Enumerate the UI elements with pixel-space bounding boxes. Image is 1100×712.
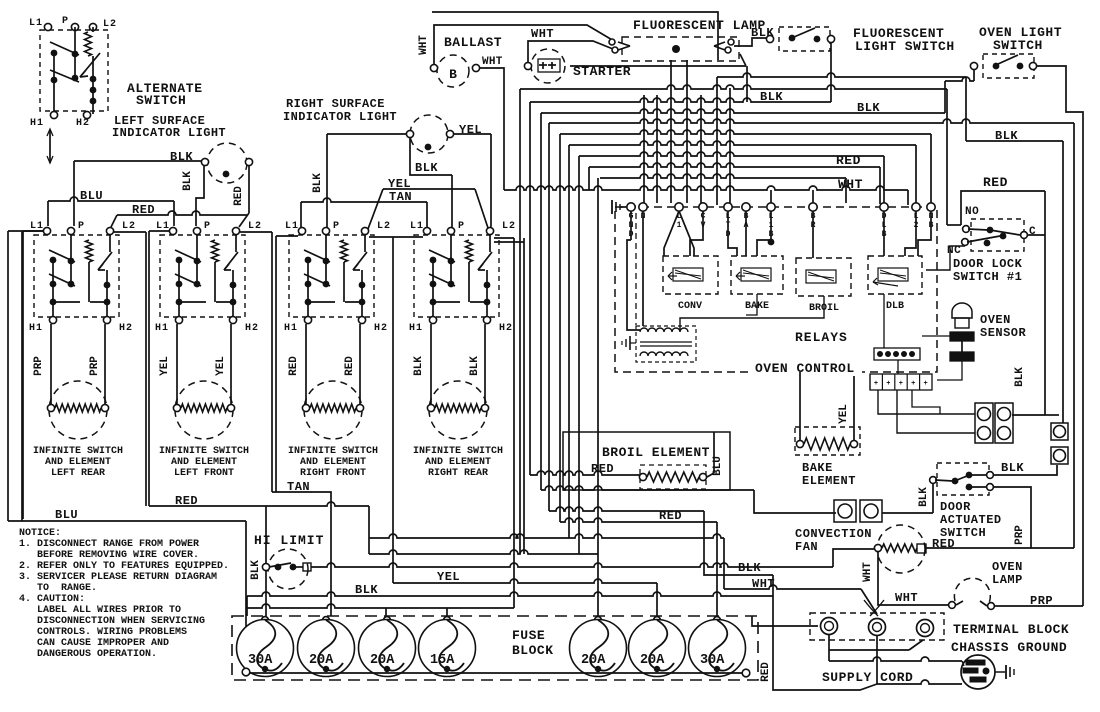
oven light switch — [970, 54, 1036, 78]
bus wire 10 WHT (y178) — [600, 174, 846, 178]
svg-text:BLK: BLK — [170, 150, 193, 164]
svg-text:BLK: BLK — [415, 161, 438, 175]
oven control dashed box — [615, 207, 937, 372]
wires oven sensor leads — [922, 335, 950, 337]
svg-text:CAN CAUSE IMPROPER AND: CAN CAUSE IMPROPER AND — [19, 638, 169, 649]
svg-text:INDICATOR LIGHT: INDICATOR LIGHT — [283, 110, 397, 124]
svg-text:BLOCK: BLOCK — [512, 643, 554, 658]
svg-text:NO: NO — [965, 206, 979, 218]
wire into terminal block — [752, 616, 818, 626]
svg-text:BLK: BLK — [857, 101, 880, 115]
svg-text:RED: RED — [760, 662, 772, 682]
svg-text:H2: H2 — [499, 323, 513, 334]
bus wire 3 BLK (y102) — [530, 98, 831, 102]
svg-text:DOOR LOCK: DOOR LOCK — [953, 257, 1023, 271]
wire from indicator down to P of left front switch — [196, 166, 204, 226]
oven control output connector — [870, 374, 932, 390]
broil element box — [563, 432, 730, 490]
svg-text:+: + — [886, 380, 890, 388]
svg-text:+: + — [899, 380, 903, 388]
svg-text:BLU: BLU — [80, 189, 103, 203]
svg-text:RED: RED — [132, 203, 155, 217]
svg-text:L2: L2 — [103, 19, 117, 30]
wires terminals to relays — [664, 211, 679, 256]
fluorescent light switch — [766, 27, 834, 51]
svg-text:WHT: WHT — [531, 27, 554, 41]
right surface indicator light — [406, 115, 453, 153]
wire RED connecting L2 terminals — [117, 211, 247, 215]
svg-text:30A: 30A — [248, 653, 273, 668]
wire hi limit to right — [311, 563, 833, 567]
svg-text:WHT: WHT — [862, 562, 874, 582]
infinite switch and element right rear — [409, 221, 516, 479]
svg-text:INFINITE SWITCH: INFINITE SWITCH — [288, 446, 378, 457]
wire fan to door switch — [882, 512, 933, 514]
svg-text:YEL: YEL — [159, 356, 171, 376]
svg-text:P: P — [78, 221, 84, 232]
bus wire 6 (y134) — [560, 130, 931, 134]
svg-text:SWITCH #1: SWITCH #1 — [953, 270, 1022, 284]
infinite switch and element left rear — [29, 221, 136, 479]
fuse 15A at x=447 — [419, 617, 476, 677]
wire to right indicator — [327, 133, 406, 135]
svg-text:L2: L2 — [248, 221, 262, 232]
wire rail right of unit 1 — [145, 232, 147, 506]
left surface indicator light — [201, 143, 252, 183]
svg-text:INFINITE SWITCH: INFINITE SWITCH — [159, 446, 249, 457]
svg-text:TERMINAL BLOCK: TERMINAL BLOCK — [953, 622, 1069, 637]
svg-text:BEFORE REMOVING WIRE COVER.: BEFORE REMOVING WIRE COVER. — [19, 550, 199, 561]
svg-text:2. REFER ONLY TO FEATURES EQUI: 2. REFER ONLY TO FEATURES EQUIPPED. — [19, 561, 229, 572]
bus wire 1 (y77) — [717, 73, 966, 77]
svg-text:OVEN: OVEN — [980, 313, 1011, 327]
svg-text:AND ELEMENT: AND ELEMENT — [300, 457, 366, 468]
svg-text:1. DISCONNECT RANGE FROM POWER: 1. DISCONNECT RANGE FROM POWER — [19, 539, 199, 550]
svg-text:RIGHT REAR: RIGHT REAR — [428, 468, 488, 479]
svg-text:FAN: FAN — [795, 540, 818, 554]
svg-text:BLK: BLK — [995, 129, 1018, 143]
svg-text:FUSE: FUSE — [512, 628, 545, 643]
svg-text:RED: RED — [344, 356, 356, 376]
wires from oven control to connector blocks — [878, 390, 975, 414]
svg-text:RELAYS: RELAYS — [795, 330, 848, 345]
svg-text:H1: H1 — [29, 323, 43, 334]
arrow below alternate switch — [49, 130, 51, 163]
wire y522 — [560, 518, 717, 522]
svg-text:CONV: CONV — [678, 301, 702, 312]
svg-text:CONVECTION: CONVECTION — [795, 527, 872, 541]
svg-text:LEFT REAR: LEFT REAR — [51, 468, 105, 479]
svg-text:BLK: BLK — [1001, 461, 1024, 475]
svg-text:L1: L1 — [410, 221, 424, 232]
supply cord wires — [828, 635, 830, 661]
svg-text:PRP: PRP — [1014, 525, 1026, 545]
svg-text:H2: H2 — [245, 323, 259, 334]
svg-text:NC: NC — [947, 245, 961, 257]
svg-text:RIGHT SURFACE: RIGHT SURFACE — [286, 97, 385, 111]
svg-text:RED: RED — [836, 153, 861, 168]
wire to door lock NO — [946, 89, 948, 225]
svg-text:AND ELEMENT: AND ELEMENT — [45, 457, 111, 468]
svg-text:L2: L2 — [377, 221, 391, 232]
svg-text:BLK: BLK — [760, 90, 783, 104]
svg-text:INFINITE SWITCH: INFINITE SWITCH — [33, 446, 123, 457]
oven control terminals — [627, 203, 635, 211]
svg-text:BLK: BLK — [413, 356, 425, 376]
svg-text:+: + — [911, 380, 915, 388]
svg-text:H2: H2 — [374, 323, 388, 334]
svg-text:4. CAUTION:: 4. CAUTION: — [19, 594, 85, 605]
svg-text:20A: 20A — [309, 653, 334, 668]
fuse block dashed box — [232, 616, 758, 680]
relay BROIL — [796, 258, 851, 296]
broil element resistor — [639, 465, 706, 489]
label OVEN CONTROL — [752, 360, 862, 375]
door lock switch #1 — [947, 206, 1036, 257]
wire TAN connecting L1 right units — [301, 198, 427, 202]
wire N to transformer — [642, 211, 644, 326]
svg-text:SWITCH: SWITCH — [136, 93, 186, 108]
svg-text:LAMP: LAMP — [992, 573, 1023, 587]
svg-text:RED: RED — [983, 175, 1008, 190]
svg-text:TAN: TAN — [389, 190, 412, 204]
svg-text:BLU: BLU — [55, 508, 78, 522]
fuse 20A at x=657 — [629, 617, 686, 677]
wire y511 — [549, 507, 704, 511]
relay BAKE — [731, 256, 783, 294]
svg-text:YEL: YEL — [838, 404, 850, 424]
terminal block — [810, 613, 944, 640]
square terminal B — [1051, 447, 1068, 464]
wire from fluorescent switch down — [830, 42, 832, 102]
ballast B — [430, 35, 502, 87]
svg-text:3. SERVICER PLEASE RETURN DIAG: 3. SERVICER PLEASE RETURN DIAGRAM — [19, 572, 217, 583]
svg-text:20A: 20A — [370, 653, 395, 668]
svg-text:BLK: BLK — [312, 173, 324, 193]
svg-text:TO RANGE.: TO RANGE. — [19, 583, 97, 594]
relay CONV — [663, 256, 718, 294]
wire from lamp assembly bottom — [570, 65, 746, 67]
svg-text:BLK: BLK — [738, 561, 761, 575]
svg-text:SUPPLY CORD: SUPPLY CORD — [822, 670, 913, 685]
svg-text:YEL: YEL — [215, 356, 227, 376]
svg-text:L1: L1 — [29, 18, 43, 29]
ground symbol at oven control — [620, 206, 631, 208]
svg-text:15A: 15A — [430, 653, 455, 668]
wire PRP from door actuated switch — [994, 487, 1074, 548]
svg-text:RED: RED — [932, 537, 955, 551]
wire bottom feed 4 — [247, 604, 514, 608]
wire hi limit down to fuse 1 — [265, 571, 267, 616]
svg-text:NOTICE:: NOTICE: — [19, 528, 61, 539]
svg-text:WHT: WHT — [418, 35, 430, 55]
wire BLK from indicator to P right rear — [410, 138, 452, 175]
supply cord curves — [864, 600, 884, 616]
wire YEL from right indicator — [454, 133, 491, 135]
svg-text:RED: RED — [233, 186, 245, 206]
wire rail right of unit 3 / left of unit 4 (YEL) — [392, 237, 394, 583]
bus wire 11 WHT wavy (y190) — [504, 186, 908, 190]
fuse 20A at x=326 — [298, 617, 355, 677]
enclosure line around lamp assembly — [432, 12, 718, 60]
infinite switch and element right front — [284, 221, 391, 479]
svg-text:20A: 20A — [640, 653, 665, 668]
bus wire 4 BLK (y113) — [541, 109, 945, 113]
wire from door lock NC to DLB — [926, 246, 965, 270]
svg-text:DOOR: DOOR — [940, 500, 971, 514]
wire rail left of unit 3 (TAN) — [275, 236, 277, 492]
svg-text:BLK: BLK — [182, 171, 194, 191]
wire BLU connecting L1 terminals — [48, 197, 174, 201]
svg-text:LEFT FRONT: LEFT FRONT — [174, 468, 234, 479]
wire BLK right top — [965, 77, 967, 141]
svg-text:YEL: YEL — [459, 123, 482, 137]
svg-text:OVEN: OVEN — [992, 560, 1023, 574]
svg-text:RIGHT FRONT: RIGHT FRONT — [300, 468, 366, 479]
svg-text:CONTROLS. WIRING PROBLEMS: CONTROLS. WIRING PROBLEMS — [19, 627, 187, 638]
svg-text:BLK: BLK — [918, 487, 930, 507]
wire staircase to fuse 5 — [597, 178, 599, 616]
fuse block bottom bus — [244, 672, 742, 674]
svg-text:BAKE: BAKE — [802, 461, 833, 475]
svg-text:L2: L2 — [502, 221, 516, 232]
fluorescent lamp — [609, 18, 766, 61]
wire rail left of unit 1 (BLU) — [22, 231, 24, 519]
svg-text:H1: H1 — [409, 323, 423, 334]
wire YEL connecting L2 right units — [383, 188, 475, 190]
wire hi limit feed — [265, 506, 267, 563]
svg-text:20A: 20A — [581, 653, 606, 668]
svg-text:BALLAST: BALLAST — [444, 35, 502, 50]
svg-text:L1: L1 — [285, 221, 299, 232]
svg-text:ACTUATED: ACTUATED — [940, 513, 1002, 527]
wire from oven light switch left — [973, 70, 975, 81]
wire from oven light switch right to rail — [1037, 66, 1083, 606]
bus wire 2 (y89) — [520, 85, 947, 89]
relay DLB — [868, 256, 922, 294]
svg-text:AND ELEMENT: AND ELEMENT — [171, 457, 237, 468]
svg-text:+: + — [874, 380, 878, 388]
fuse 30A at x=265 — [237, 617, 294, 677]
wire rail right of unit 4 — [513, 238, 515, 608]
svg-text:INFINITE SWITCH: INFINITE SWITCH — [413, 446, 503, 457]
svg-text:RED: RED — [288, 356, 300, 376]
wire WHT from ballast down to bus — [480, 68, 504, 190]
svg-text:YEL: YEL — [437, 570, 460, 584]
wire BLK down to P right front — [326, 134, 328, 230]
wire top from ballast to lamp — [434, 25, 614, 64]
oven sensor — [950, 303, 974, 361]
svg-text:BLK: BLK — [355, 583, 378, 597]
connector blocks right — [975, 403, 1013, 443]
notice text — [19, 528, 229, 660]
svg-text:ELEMENT: ELEMENT — [802, 474, 856, 488]
svg-text:H1: H1 — [30, 118, 44, 129]
alternate switch assembly — [29, 16, 117, 163]
svg-text:30A: 30A — [700, 653, 725, 668]
fuse 30A at x=717 — [689, 617, 746, 677]
wire RED from indicator right terminal — [248, 166, 250, 213]
wire rail left of unit 2 (RED) — [148, 231, 150, 506]
svg-text:BLK: BLK — [1014, 367, 1026, 387]
svg-text:CHASSIS GROUND: CHASSIS GROUND — [951, 640, 1067, 655]
oven sensor connector — [874, 348, 920, 360]
wire from lamp to fluorescent light switch — [734, 38, 769, 46]
chassis ground — [961, 655, 1014, 689]
svg-text:P: P — [333, 221, 339, 232]
svg-text:PRP: PRP — [33, 356, 45, 376]
svg-text:WHT: WHT — [482, 56, 503, 68]
wire y538 — [369, 534, 724, 538]
svg-text:SENSOR: SENSOR — [980, 326, 1027, 340]
svg-text:H2: H2 — [76, 118, 90, 129]
bus wire 8 (y156) — [579, 152, 884, 156]
wires around relays — [680, 296, 824, 330]
svg-text:B: B — [449, 67, 457, 82]
bus wire 7 (y145) — [569, 141, 916, 145]
wire connector to right square — [1012, 414, 1045, 416]
fuse 20A at x=387 — [359, 617, 416, 677]
svg-text:WHT: WHT — [895, 591, 918, 605]
bus wire 5 (y123) — [549, 119, 1074, 123]
svg-text:H1: H1 — [284, 323, 298, 334]
convection fan terminals — [834, 500, 882, 522]
svg-text:1: 1 — [677, 221, 682, 230]
bus wire 9 RED (y167) — [589, 163, 880, 167]
staircase verticals down from bus — [519, 89, 521, 554]
door actuated switch — [930, 463, 994, 495]
bake element — [795, 427, 860, 455]
svg-text:P: P — [62, 16, 68, 27]
svg-text:YEL: YEL — [388, 177, 411, 191]
svg-text:DISCONNECTION WHEN SERVICING: DISCONNECTION WHEN SERVICING — [19, 616, 205, 627]
wire rail right of unit 2 — [271, 232, 273, 492]
svg-text:FLUORESCENT LAMP: FLUORESCENT LAMP — [633, 18, 766, 33]
svg-text:DLB: DLB — [886, 301, 904, 312]
svg-text:C: C — [1029, 226, 1036, 238]
convection fan — [874, 525, 926, 573]
svg-text:BLK: BLK — [250, 560, 262, 580]
svg-text:HI LIMIT: HI LIMIT — [254, 533, 324, 548]
oven lamp — [949, 578, 995, 609]
svg-text:H2: H2 — [119, 323, 133, 334]
wire PRP from oven lamp — [995, 605, 1083, 607]
square terminal A — [1051, 423, 1068, 440]
svg-text:BROIL ELEMENT: BROIL ELEMENT — [602, 445, 710, 460]
svg-text:P: P — [204, 221, 210, 232]
fuse 20A at x=598 — [570, 617, 627, 677]
svg-text:RED: RED — [659, 509, 682, 523]
crossing verticals in dense zone — [643, 95, 645, 203]
starter — [524, 49, 631, 83]
wire to bake element left — [799, 372, 801, 440]
wire BLK to left indicator — [74, 160, 201, 162]
infinite switch and element left front — [155, 221, 262, 479]
svg-text:H1: H1 — [155, 323, 169, 334]
svg-text:+: + — [923, 380, 927, 388]
transformer — [622, 326, 696, 362]
wire y490 — [541, 486, 754, 490]
svg-text:L2: L2 — [122, 221, 136, 232]
wire from door lock C — [1028, 234, 1045, 236]
hi limit switch — [262, 549, 311, 589]
svg-text:P: P — [458, 221, 464, 232]
svg-text:LABEL ALL WIRES PRIOR TO: LABEL ALL WIRES PRIOR TO — [19, 605, 181, 616]
svg-text:PRP: PRP — [1030, 594, 1053, 608]
svg-text:AND ELEMENT: AND ELEMENT — [425, 457, 491, 468]
svg-text:INDICATOR LIGHT: INDICATOR LIGHT — [112, 126, 226, 140]
wire BLK to door actuated switch from convection fan — [932, 484, 934, 513]
svg-text:SWITCH: SWITCH — [993, 38, 1043, 53]
svg-text:DANGEROUS OPERATION.: DANGEROUS OPERATION. — [19, 649, 157, 660]
svg-text:LIGHT SWITCH: LIGHT SWITCH — [855, 39, 955, 54]
svg-text:BLK: BLK — [469, 356, 481, 376]
svg-text:PRP: PRP — [89, 356, 101, 376]
svg-text:OVEN CONTROL: OVEN CONTROL — [755, 361, 855, 376]
